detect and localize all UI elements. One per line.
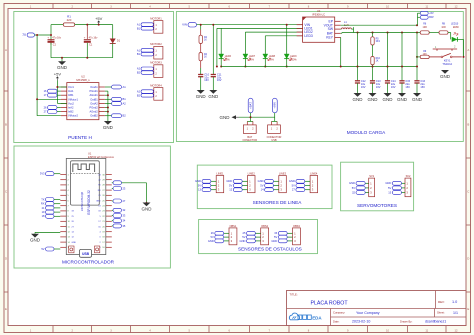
svg-text:OBS1: OBS1 [229,224,236,228]
led LED6 [220,28,222,54]
svg-text:10R: 10R [441,27,446,29]
switch KEY1 contact row [433,48,457,50]
svg-text:16V: 16V [391,85,396,89]
svg-text:100%: 100% [290,59,297,62]
capacitor C12 [355,80,360,82]
svg-text:33: 33 [274,231,277,235]
U4 right pins [335,20,341,22]
svg-text:3V3: 3V3 [40,172,45,176]
svg-text:U1: U1 [88,152,92,156]
wire VOUT to ports [341,24,417,26]
port 5V line3 [265,184,274,188]
svg-text:InB2: InB2 [68,110,74,114]
svg-text:SERVOMOTORES: SERVOMOTORES [357,203,397,208]
svg-text:TS24CA: TS24CA [442,62,452,66]
port GND obs1 [215,239,224,243]
wire top rail right [75,24,113,26]
port VIN [188,23,197,27]
svg-text:SV2: SV2 [406,174,411,178]
port 15 sv2 [392,191,401,195]
svg-text:5V: 5V [260,183,263,187]
svg-text:MX1508_s: MX1508_s [76,78,90,82]
resistor R4 1K [200,44,202,53]
svg-text:+VIN: +VIN [273,102,277,108]
wire OutB1 to port B1 [105,98,112,100]
svg-text:EDA: EDA [312,315,322,320]
svg-text:C: C [5,190,7,194]
resistor R5 3K3 divider [372,33,374,37]
port GND line1 [202,179,211,183]
port 32 sv1 [356,191,365,195]
section box SENSORES DE OSTACULOS [199,220,318,254]
resistor R3 1K [200,25,202,30]
svg-text:1.0: 1.0 [452,300,457,304]
svg-text:ESP32-D0WDQ6: ESP32-D0WDQ6 [81,191,84,211]
svg-text:GND: GND [96,200,101,202]
wire VIN rail [197,24,303,26]
esp32 usb connector [80,249,92,257]
wire VMotor1 [37,98,61,100]
svg-text:GND: GND [412,97,423,102]
port 27 line4 [296,188,305,192]
svg-text:5V: 5V [274,235,277,239]
svg-text:1K: 1K [204,39,207,41]
U2 left pins [61,86,67,88]
port 5V line2 [233,184,242,188]
port GND sv2 [392,181,401,185]
svg-text:B: B [5,123,7,127]
resistor R6 1K divider [372,45,374,57]
svg-text:10R: 10R [423,27,428,29]
svg-text:E: E [467,307,469,311]
capacitor C11 [212,25,214,75]
svg-text:LINE3: LINE3 [279,172,287,176]
svg-text:BAT: BAT [429,16,434,19]
port B1 motor1 [141,27,154,31]
port 26 obs1 [215,231,224,235]
svg-text:5V: 5V [242,235,245,239]
port A1 [112,85,122,89]
ground esp32 right [122,182,147,184]
wire top rail left [51,24,63,26]
svg-text:KEY: KEY [326,36,333,40]
port B2 motor4 [141,94,154,98]
svg-text:OBS2: OBS2 [261,224,268,228]
svg-text:12: 12 [455,328,458,332]
svg-text:47u 16v: 47u 16v [89,37,99,40]
port A2 motor4 [141,90,154,94]
svg-text:A: A [467,48,469,52]
diode D1 [112,25,114,39]
svg-text:GND: GND [385,181,391,185]
svg-text:15: 15 [388,190,391,194]
wire bottom rail [51,57,113,59]
port 5V obs1 [215,235,224,239]
wire VMotor2 [37,115,61,117]
port +5V right [420,11,428,15]
svg-text:26: 26 [211,231,214,235]
svg-text:MOTOR2: MOTOR2 [150,42,162,46]
svg-text:TITLE:: TITLE: [290,292,298,296]
wire OutA1 to port A1 [105,86,112,88]
svg-text:OBS3: OBS3 [293,224,300,228]
svg-text:5V: 5V [388,186,391,190]
svg-text:GND: GND [103,125,114,130]
port B2 [112,114,122,118]
section box MODULO CARGA [176,12,463,142]
wire L1 to rail [351,28,353,30]
wire vertical 7V node [50,25,52,40]
svg-text:OutA1: OutA1 [90,85,98,89]
svg-text:+5V: +5V [95,16,103,21]
wire gnd bus U2 [107,91,109,121]
svg-text:Vcc1: Vcc1 [68,85,74,89]
svg-text:GND: GND [220,115,231,120]
wire led rail3 [265,35,302,37]
svg-text:1/1: 1/1 [453,311,458,315]
wire VMotor feed vertical [36,35,38,116]
wire led rail2 [245,31,302,33]
svg-text:InB1: InB1 [68,93,74,97]
port GND obs2 [247,239,256,243]
svg-text:3K3: 3K3 [376,41,381,43]
svg-text:LED10: LED10 [451,24,459,26]
ground C14 [384,93,392,97]
+5V flag top [98,22,100,24]
svg-text:MODULO CARGA: MODULO CARGA [347,130,386,135]
capacitor C14 [385,80,390,82]
port B1 motor2 [141,52,154,56]
svg-text:5V: 5V [292,183,295,187]
wire LED10 to switch [457,38,463,40]
resistor R9 10K [417,56,420,58]
frame column ticks bottom [52,326,54,333]
frame column ticks top [52,4,54,9]
svg-text:RX: RX [41,202,45,206]
resistor R6 10R [420,31,429,34]
wire bat usb gnd [250,113,252,122]
ports esp32 left cluster [46,198,55,202]
ports esp32 right top [113,181,122,185]
port GND line2 [233,179,242,183]
svg-text:12: 12 [229,188,232,192]
port 5V obs3 [278,235,287,239]
op chip U2 MX1508 [67,83,99,120]
svg-text:SENSORES DE LINEA: SENSORES DE LINEA [253,200,303,205]
svg-text:dsantibanez1: dsantibanez1 [425,320,446,324]
port A2 motor3 [141,67,154,71]
ground C16 [413,93,421,97]
svg-text:GND: GND [196,94,207,99]
frame row ticks left [4,90,8,92]
svg-text:75%: 75% [269,59,275,62]
svg-text:MOTOR4: MOTOR4 [150,83,162,87]
svg-text:5V: 5V [41,247,44,251]
svg-text:11: 11 [425,4,428,8]
svg-text:CONECTOR: CONECTOR [242,138,257,142]
esp32 boot button [69,246,74,253]
svg-text:10: 10 [386,328,389,332]
svg-text:+5V: +5V [429,12,434,15]
section box MICROCONTROLADOR [14,146,170,268]
svg-text:GND: GND [72,242,77,244]
ground KEY1 [441,70,449,74]
svg-text:ESP-WROOM-32: ESP-WROOM-32 [87,190,91,215]
ground esp32 left [35,231,60,233]
svg-text:MOTOR1: MOTOR1 [150,16,162,20]
U4 left pins [297,24,303,26]
connector CONECTOR USB [272,120,278,122]
logo jlc eda [289,313,299,320]
svg-text:PLACA ROBOT: PLACA ROBOT [311,301,349,307]
port esp32 right mid [113,199,122,203]
svg-text:MOTOR3: MOTOR3 [150,61,162,65]
svg-text:VMotor1: VMotor1 [68,97,78,101]
svg-text:OutB1: OutB1 [90,97,98,101]
port 7V [27,33,34,37]
ground C15 [398,93,406,97]
svg-text:25%: 25% [225,59,231,62]
port BAT right [420,15,428,19]
port 5V obs2 [247,235,256,239]
svg-text:1K: 1K [376,61,379,63]
svg-text:IP5306-LC: IP5306-LC [312,12,325,16]
esp32 pins [60,174,66,176]
svg-text:EMW: EMW [453,27,459,29]
svg-text:D: D [5,257,7,261]
inductor L1 1uH [340,28,343,30]
port GND sv1 [356,181,365,185]
svg-text:VIN: VIN [182,23,187,27]
svg-text:13: 13 [198,188,201,192]
port GND obs3 [278,239,287,243]
svg-text:USB: USB [271,138,277,142]
wire R6 R8 [429,32,439,34]
svg-text:2023-02-10: 2023-02-10 [352,320,370,324]
port 14 line3 [265,188,274,192]
svg-text:B: B [467,123,469,127]
svg-text:TX: TX [41,197,45,201]
port 12 line2 [233,188,242,192]
svg-text:MICROCONTROLADOR: MICROCONTROLADOR [62,260,115,265]
svg-text:GND: GND [289,179,295,183]
svg-text:16V: 16V [376,85,381,89]
capacitor C15 [399,80,404,82]
svg-text:GND: GND [208,239,214,243]
svg-text:GND: GND [240,239,246,243]
svg-text:LED3: LED3 [304,34,313,38]
svg-text:USB: USB [82,252,90,256]
svg-text:GND: GND [57,65,68,70]
ground U2 [104,121,112,125]
port InB2 [48,110,58,114]
svg-text:GND: GND [142,206,153,211]
svg-text:LINE1: LINE1 [216,172,224,176]
svg-text:AGnd1: AGnd1 [90,93,99,97]
esp32 en button [95,246,100,253]
ground left arrow [232,115,237,119]
port A2 [112,102,122,106]
+5V flag U2 [56,78,58,80]
port 5V sv1 [356,186,365,190]
svg-text:16V: 16V [361,85,366,89]
ground C11 [209,90,217,94]
svg-text:U4: U4 [317,9,321,13]
svg-text:220: 220 [67,18,72,22]
svg-text:InA2: InA2 [68,106,74,110]
wire OutB2 to port B2 [105,115,112,117]
svg-text:A2: A2 [123,101,127,105]
svg-text:14: 14 [261,188,264,192]
capacitor C2 47u 16v [50,39,52,44]
wire branch line sensor [216,28,218,66]
section box SENSORES DE LINEA [197,165,332,209]
wire R8 to LED10 [448,32,451,34]
svg-text:10K: 10K [423,54,428,56]
ground C10 [197,90,205,94]
port InB1 [48,93,58,97]
resistor R8 10R [439,31,448,34]
svg-text:REV:: REV: [438,300,445,304]
svg-text:GND: GND [226,179,232,183]
port GND line3 [265,179,274,183]
capacitor C1 47u 16v [86,25,88,40]
svg-text:GND: GND [353,97,364,102]
frame row ticks right [466,90,471,92]
port 33 obs3 [278,231,287,235]
connector BAT CONECTOR [247,120,253,122]
port B2 motor3 [141,71,154,75]
svg-text:GND: GND [195,179,201,183]
wire KEY pin down to led rail [340,37,342,66]
svg-text:LINE2: LINE2 [248,172,256,176]
svg-text:GND: GND [258,179,264,183]
port 13 line1 [202,188,211,192]
port +BAT vertical [248,98,253,113]
port A1 motor1 [141,23,154,27]
port 3V3 [46,172,55,176]
svg-text:GND: GND [271,239,277,243]
svg-text:+BAT: +BAT [248,102,252,109]
svg-text:10: 10 [386,4,389,8]
switch KEY1 lever [429,56,441,58]
svg-text:47u 16v: 47u 16v [52,37,62,40]
svg-text:A1: A1 [123,85,127,89]
svg-text:Sheet:: Sheet: [437,311,445,315]
svg-text:5V: 5V [352,186,355,190]
svg-text:A: A [5,48,7,52]
wire BAT pin to rail [341,32,342,34]
svg-text:OutA2: OutA2 [90,101,98,105]
ground C12 [354,93,362,97]
ports esp32 right cluster [113,208,122,212]
svg-text:16V: 16V [204,78,209,82]
svg-text:32: 32 [352,190,355,194]
svg-text:1K: 1K [204,57,207,59]
led LED10 [452,37,457,42]
ground power rail [61,58,63,62]
port B1 [112,97,122,101]
port 5V line4 [296,184,305,188]
svg-text:VMotor2: VMotor2 [68,114,78,118]
capacitor C10 [200,61,202,68]
port 5V line1 [202,184,211,188]
section box SERVOMOTORES [341,162,414,211]
port +VIN vertical [272,98,277,113]
capacitor C16 [414,80,419,82]
svg-text:Your Company: Your Company [356,311,380,315]
svg-text:PGnd1: PGnd1 [90,89,99,93]
svg-text:PGnd2: PGnd2 [90,106,99,110]
wire +5V rail right [342,32,420,34]
svg-text:OutB2: OutB2 [90,114,98,118]
wire +5V to Vcc1 Vcc2 [56,81,58,104]
svg-text:25: 25 [243,231,246,235]
svg-text:GND: GND [383,97,394,102]
wires ports to vout [418,12,421,14]
port 5V sv2 [392,186,401,190]
svg-text:11: 11 [425,328,428,332]
svg-text:GND: GND [368,97,379,102]
svg-text:GND: GND [397,97,408,102]
ground C13 [369,93,377,97]
svg-text:GND: GND [30,238,41,243]
led LED7 [244,32,246,54]
wires cap columns [357,33,359,81]
svg-text:5V: 5V [211,235,214,239]
esp32 antenna module [71,161,100,205]
svg-text:C: C [467,190,469,194]
svg-text:B1: B1 [123,97,127,101]
svg-text:Company:: Company: [333,311,346,315]
svg-text:Date:: Date: [333,319,340,323]
section box PUENTE H [14,12,174,143]
U2 right pins [99,86,105,88]
resistor R1 220 [63,23,74,26]
svg-text:GND: GND [208,94,219,99]
svg-text:GND: GND [349,181,355,185]
svg-text:Vcc2: Vcc2 [68,101,74,105]
svg-text:InA1: InA1 [68,89,74,93]
chip U4 IP5306-LC [303,17,335,42]
svg-text:GND: GND [440,74,451,79]
port 25 obs2 [247,231,256,235]
led LED9 [286,25,288,54]
port A1 motor2 [141,49,154,53]
title block dividers [287,308,467,310]
wire OutA2 to port A2 [105,102,112,104]
svg-text:E: E [5,307,7,311]
port InA1 [48,89,58,93]
svg-text:KEY1: KEY1 [444,58,451,62]
svg-text:AGnd2: AGnd2 [90,110,99,114]
capacitor C13 [370,80,375,82]
port InA2 [48,106,58,110]
svg-text:B2: B2 [123,114,127,118]
wire led rail1 [217,27,303,29]
svg-text:16V: 16V [420,85,425,89]
port GND line4 [296,179,305,183]
wire 7V to node [35,34,52,36]
svg-text:SENSORES DE OSTACULOS: SENSORES DE OSTACULOS [238,246,302,251]
svg-text:12: 12 [455,4,458,8]
svg-text:16V: 16V [405,85,410,89]
svg-text:+5V: +5V [54,72,62,77]
svg-text:27: 27 [292,188,295,192]
svg-text:50%: 50% [249,59,255,62]
svg-text:16V: 16V [217,78,222,82]
title block border [287,291,467,326]
